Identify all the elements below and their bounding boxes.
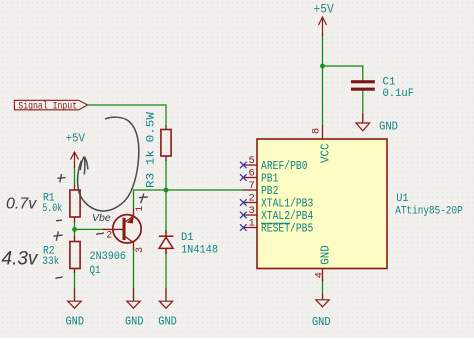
transistor Q1 2N3906	[103, 209, 141, 251]
pin 8 VCC (top)	[310, 125, 332, 163]
svg-text:5: 5	[248, 155, 254, 167]
pin 1 RESET/PB5	[240, 217, 313, 235]
op-amp style IC body U1 ATtiny85-20P	[257, 139, 387, 269]
pin 4 GND (bottom)	[314, 245, 333, 281]
svg-text:8: 8	[310, 128, 322, 134]
svg-text:4.3v: 4.3v	[2, 249, 39, 270]
svg-text:GND: GND	[312, 315, 331, 329]
wire: R2 bottom to GND	[74, 271, 76, 300]
svg-text:VCC: VCC	[319, 144, 333, 164]
resistor R2	[70, 236, 80, 273]
svg-text:2N3906: 2N3906	[90, 251, 127, 263]
svg-text:1: 1	[135, 206, 146, 212]
wire: R3 bottom to junction	[165, 160, 167, 190]
annotation loop arrow (pencil)	[78, 117, 139, 211]
junction dot at R1/R2/base	[72, 227, 77, 232]
wire: +5V right down to VCC pin	[322, 33, 324, 126]
svg-text:GND: GND	[319, 245, 333, 265]
resistor R1	[70, 185, 80, 222]
capacitor C1	[351, 80, 375, 91]
pin 3 XTAL2/PB4	[240, 205, 313, 223]
svg-text:GND: GND	[158, 315, 177, 329]
ground under D1	[159, 288, 172, 308]
wire: Signal Input to R3 top corner	[88, 105, 166, 126]
svg-text:3: 3	[248, 205, 254, 217]
svg-text:+5V: +5V	[314, 3, 335, 17]
power symbol +5V (left)	[71, 152, 79, 168]
svg-text:GND: GND	[379, 120, 398, 134]
svg-text:2: 2	[248, 192, 254, 204]
wire: D1 bottom to GND	[165, 249, 167, 301]
wire: Q1 collector to GND	[133, 248, 135, 300]
svg-text:0.1uF: 0.1uF	[383, 88, 415, 100]
wire: C1 bottom to GND	[362, 91, 364, 123]
ground under Q1 collector	[127, 288, 140, 308]
wire: R1 bottom to junction to R2 top	[74, 220, 76, 238]
svg-text:5.0k: 5.0k	[42, 203, 62, 215]
svg-text:GND: GND	[66, 315, 85, 329]
svg-text:6: 6	[248, 167, 254, 179]
wire: +5V left to R1 top	[74, 165, 76, 186]
pin 7 PB2 (connected)	[243, 180, 278, 198]
ground under C1	[356, 113, 370, 131]
global label Signal Input	[14, 100, 87, 112]
annotation plus above R2	[53, 231, 62, 240]
annotation tilde below R2	[56, 277, 63, 279]
svg-text:+5V: +5V	[66, 132, 85, 145]
svg-text:GND: GND	[125, 315, 144, 329]
annotation plus above R1	[57, 174, 65, 183]
svg-text:2: 2	[106, 231, 112, 242]
wire: IC GND pin to GND symbol	[322, 278, 324, 299]
power symbol +5V (right)	[319, 17, 327, 36]
svg-text:0.7v: 0.7v	[6, 196, 37, 213]
svg-text:ATtiny85-20P: ATtiny85-20P	[395, 205, 463, 217]
pin 5 AREF/PB0	[240, 155, 308, 173]
svg-text:Vbe: Vbe	[92, 212, 111, 224]
svg-text:4: 4	[314, 272, 326, 278]
resistor R3	[161, 125, 171, 161]
wire: horizontal bus emitter elbow to PB2 pin	[134, 190, 244, 209]
svg-text:7: 7	[248, 180, 254, 192]
pin 6 PB1	[240, 167, 278, 185]
ground under IC pin 4	[316, 294, 329, 307]
wire: junction to C1 top	[323, 66, 363, 81]
svg-text:3: 3	[135, 247, 146, 253]
svg-text:1: 1	[248, 217, 254, 229]
svg-text:Signal Input: Signal Input	[18, 100, 77, 112]
diode D1	[159, 230, 174, 254]
wire: base junction to Q1 base	[75, 228, 106, 230]
pin 2 XTAL1/PB3	[240, 192, 313, 210]
junction dot at +5V / C1 branch	[320, 64, 325, 69]
annotation minus below R1	[56, 219, 62, 222]
annotation plus near emitter	[139, 194, 148, 204]
ground under R2	[68, 288, 81, 308]
svg-text:R3 1k 0.5W: R3 1k 0.5W	[146, 112, 158, 188]
annotation tilde at base	[97, 232, 104, 234]
svg-text:33k: 33k	[42, 256, 59, 268]
junction dot at R3 bottom / bus	[164, 188, 169, 193]
svg-text:Q1: Q1	[90, 265, 101, 277]
svg-text:D1: D1	[181, 232, 194, 244]
svg-text:1N4148: 1N4148	[181, 245, 218, 257]
svg-text:C1: C1	[383, 77, 396, 89]
wire: junction down to D1 anode	[165, 190, 167, 233]
svg-text:U1: U1	[396, 193, 409, 205]
